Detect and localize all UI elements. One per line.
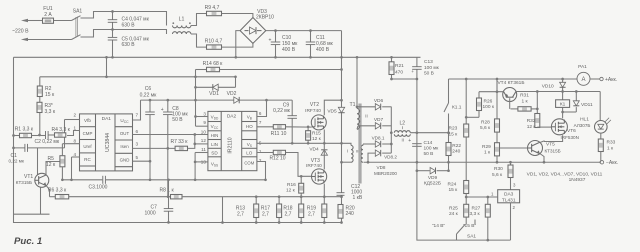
wire DA1 pin2 Vfb [65, 120, 80, 148]
wire DA2 pin5 Vs [257, 142, 343, 145]
fuse FU1 [43, 6, 72, 23]
wire DA1 pin6 OUT to DA2 [133, 134, 208, 136]
svg-text:5,6 к: 5,6 к [480, 125, 491, 131]
svg-text:1 к: 1 к [521, 98, 528, 104]
svg-text:R22: R22 [452, 143, 461, 149]
wire bridge minus to bus [234, 31, 240, 59]
zener VD5 [327, 107, 344, 114]
svg-text:IRF740: IRF740 [306, 163, 322, 169]
capacitor C2 [35, 131, 60, 145]
svg-text:R9 4,7: R9 4,7 [205, 5, 220, 11]
wire DA2 pin2 COM [257, 162, 267, 182]
svg-text:VD2: VD2 [227, 91, 237, 97]
svg-text:КД522Б: КД522Б [424, 181, 441, 187]
svg-text:1: 1 [73, 126, 76, 131]
svg-text:R28: R28 [481, 119, 490, 125]
label VD8 type [374, 165, 397, 176]
resistor R19 [307, 197, 327, 224]
svg-text:IRF530N: IRF530N [561, 135, 579, 140]
diode VD8.2 [367, 150, 398, 164]
wire common bus left and bottom [14, 57, 343, 222]
resistor R12 [257, 150, 312, 176]
svg-text:3: 3 [136, 142, 139, 147]
svg-text:50 В: 50 В [424, 151, 434, 157]
svg-text:2КВР10: 2КВР10 [256, 15, 274, 21]
svg-text:4: 4 [73, 152, 76, 157]
wire lower gnd line [14, 213, 50, 215]
svg-text:12: 12 [201, 138, 207, 143]
svg-text:VD8: VD8 [377, 165, 386, 170]
svg-text:5,6 к: 5,6 к [492, 172, 503, 178]
svg-text:IR2110: IR2110 [228, 137, 234, 153]
svg-text:240: 240 [452, 149, 460, 155]
svg-text:HIN: HIN [211, 133, 219, 138]
transistor VT2 [305, 102, 326, 130]
svg-text:R15: R15 [312, 131, 321, 137]
resistor R23 [449, 79, 469, 181]
svg-text:Рис. 1: Рис. 1 [14, 236, 42, 247]
svg-text:~220 В: ~220 В [12, 28, 29, 34]
svg-text:КТ315Б: КТ315Б [16, 180, 32, 185]
svg-text:VT4 КТ361Б: VT4 КТ361Б [497, 80, 524, 86]
transistor VT6 [537, 119, 579, 140]
svg-text:OUT: OUT [120, 131, 130, 136]
transistor VT1 [16, 148, 49, 214]
wire relay drive line [536, 90, 600, 93]
svg-text:12 к: 12 к [286, 188, 296, 194]
resistor R11 [257, 125, 312, 138]
transformer T1 winding II [356, 56, 368, 129]
wire DA2 pin11 SD [195, 152, 208, 154]
wire VT2 source [323, 130, 325, 144]
svg-text:DA1: DA1 [102, 116, 112, 122]
svg-text:12 к: 12 к [46, 162, 56, 168]
svg-text:3: 3 [203, 111, 206, 116]
capacitor C14 [408, 138, 439, 164]
svg-text:R12 10: R12 10 [269, 155, 285, 161]
wire mains line lower [21, 38, 72, 41]
svg-text:0,22 мк: 0,22 мк [140, 92, 158, 98]
resistor R28 [480, 79, 500, 143]
svg-text:+: + [408, 138, 411, 144]
svg-text:HL1: HL1 [580, 117, 589, 123]
snubber capacitor C12 [337, 184, 363, 201]
resistor R4 [52, 127, 71, 137]
wire VT3 source [323, 184, 326, 198]
resistor R18 [283, 197, 303, 224]
shunt regulator DA3 TL431 [498, 190, 520, 204]
transformer T1 core [359, 104, 361, 184]
resistor R10 [205, 39, 253, 50]
svg-text:2,7: 2,7 [237, 212, 244, 218]
svg-text:L2: L2 [400, 120, 406, 126]
relay contact K1.1 [444, 79, 462, 134]
transistor VT4 [479, 79, 537, 109]
wire gnd drop x222 [221, 197, 224, 224]
resistor R1 [12, 126, 45, 137]
wire +310V bus [266, 30, 342, 32]
note diode types [527, 171, 603, 183]
diode VD9 [424, 168, 441, 187]
svg-text:VT5: VT5 [546, 142, 555, 148]
capacitor C6 [140, 86, 158, 181]
resistor R25 [449, 197, 469, 225]
diode VD2 [141, 91, 293, 103]
diode VD11 [561, 92, 593, 114]
diode VD6 [357, 98, 392, 110]
svg-text:2,7: 2,7 [285, 212, 292, 218]
wire DA1 pin3 Isen [133, 147, 176, 150]
svg-text:Vfb: Vfb [84, 118, 91, 123]
resistor R21 [389, 56, 404, 79]
svg-text:400 В: 400 В [316, 47, 330, 53]
svg-text:R10 4,7: R10 4,7 [205, 39, 223, 45]
svg-text:3,3 к: 3,3 к [45, 109, 56, 115]
wire rectifier cathode join [390, 107, 393, 153]
capacitor C8 [161, 100, 189, 197]
svg-text:DA2: DA2 [227, 114, 237, 120]
resistor R7 [171, 133, 197, 150]
resistor R33 [598, 133, 615, 163]
svg-text:24 к: 24 к [449, 211, 459, 217]
terminal +Akk [590, 77, 617, 83]
resistor R6 [48, 188, 171, 199]
svg-text:2 А: 2 А [44, 12, 52, 18]
svg-text:15 к: 15 к [45, 92, 55, 98]
svg-text:A: A [581, 77, 585, 83]
svg-text:Isen: Isen [120, 144, 129, 149]
svg-text:R30: R30 [494, 166, 503, 172]
svg-text:“15 В”: “15 В” [463, 223, 476, 229]
resistor R30 [492, 162, 516, 189]
wire VT3 gate pulldown [300, 175, 303, 198]
svg-text:3,3 к: 3,3 к [470, 211, 481, 217]
svg-text:R4 3,3 к: R4 3,3 к [52, 127, 71, 133]
resistor R14 [196, 61, 342, 72]
svg-text:+: + [411, 69, 414, 74]
resistor R16 [286, 182, 304, 194]
svg-text:100 мк: 100 мк [424, 146, 440, 152]
svg-text:CMP: CMP [83, 131, 93, 136]
svg-text:II: II [402, 138, 404, 143]
wire Vcc out line [390, 78, 418, 81]
figure caption [14, 236, 42, 247]
capacitor C4 [108, 10, 150, 29]
svg-text:АЛ307Б: АЛ307Б [574, 123, 591, 128]
svg-text:LO: LO [246, 151, 253, 156]
svg-text:R25: R25 [449, 206, 458, 212]
wire DA1 pin1 CMP [67, 131, 80, 136]
wire DA1 pin7 Vcc [133, 100, 141, 120]
svg-text:R32: R32 [527, 118, 536, 124]
svg-text:R26: R26 [484, 99, 493, 105]
resistor R24 [448, 181, 469, 198]
resistor R5 [46, 144, 65, 180]
svg-text:400 В: 400 В [282, 47, 296, 53]
capacitor C5 [108, 28, 150, 59]
resistor R26 [465, 92, 495, 119]
svg-text:R8 1 к: R8 1 к [160, 188, 175, 194]
svg-text:R1 3,3 к: R1 3,3 к [15, 126, 34, 132]
svg-text:6: 6 [136, 129, 139, 134]
wire DA2 pin6 Vb [257, 100, 267, 116]
svg-text:PA1: PA1 [578, 64, 587, 70]
wire DA2 pin9 [196, 125, 208, 127]
svg-text:1 кВ: 1 кВ [353, 195, 363, 201]
svg-text:COM: COM [244, 161, 254, 166]
svg-text:Uref: Uref [83, 144, 92, 149]
svg-text:VT1: VT1 [24, 174, 33, 180]
svg-text:“14 В”: “14 В” [432, 223, 445, 229]
relay coil K1 [556, 92, 570, 119]
svg-text:470: 470 [395, 69, 403, 75]
svg-text:C6: C6 [145, 86, 152, 92]
wire control ground line [61, 178, 265, 181]
svg-text:VD8.1: VD8.1 [372, 136, 385, 141]
svg-text:100 к: 100 к [483, 104, 495, 110]
resistor R29 [482, 143, 500, 164]
switch SA1 voltage select [432, 220, 476, 241]
svg-text:15 к: 15 к [449, 187, 459, 193]
svg-text:UC3844: UC3844 [105, 133, 111, 152]
main HV vertical [340, 31, 343, 224]
svg-text:10: 10 [201, 129, 207, 134]
svg-text:630 В: 630 В [122, 22, 136, 28]
svg-text:VD9: VD9 [428, 175, 438, 181]
wire minus line VD9 [416, 169, 450, 172]
wire output top line [449, 78, 578, 81]
resistor R32 [527, 92, 540, 130]
wire VT1 collector [46, 162, 60, 175]
svg-text:2: 2 [73, 113, 76, 118]
svg-text:DA3: DA3 [504, 192, 514, 198]
svg-text:VD8.2: VD8.2 [384, 154, 397, 159]
svg-text:IRF740: IRF740 [305, 108, 321, 114]
led HL1 [574, 92, 611, 134]
wire VT6 source [544, 135, 563, 141]
capacitor C3 [89, 176, 108, 191]
svg-text:1 к: 1 к [607, 146, 614, 152]
resistor R27 [470, 197, 491, 241]
transistor VT3 [306, 158, 327, 184]
capacitor C13 [411, 57, 439, 79]
svg-text:VD5: VD5 [327, 109, 337, 115]
svg-text:C3.1000: C3.1000 [89, 184, 108, 190]
svg-text:VD1: VD1 [209, 91, 219, 97]
svg-text:SD: SD [211, 151, 218, 156]
wire threshold divider top [465, 191, 498, 198]
svg-text:R6 3,3 к: R6 3,3 к [48, 188, 67, 194]
diode VD8.1 [363, 136, 393, 148]
wire from SA1 to filter upper [81, 12, 167, 26]
transformer T1 winding III [356, 144, 363, 162]
svg-text:Т1: Т1 [349, 102, 355, 108]
svg-text:II: II [365, 114, 367, 119]
svg-text:VD10: VD10 [542, 83, 554, 89]
resistor R3 [37, 102, 56, 136]
svg-text:12 к: 12 к [527, 124, 537, 130]
svg-text:SA1: SA1 [467, 234, 476, 240]
svg-text:L1: L1 [179, 17, 185, 23]
wire VT3 drain [323, 143, 325, 169]
svg-text:R29: R29 [482, 144, 491, 150]
svg-text:VD6: VD6 [374, 98, 384, 104]
svg-text:50 В: 50 В [424, 71, 434, 77]
resistor R2 [37, 77, 55, 136]
svg-text:15 к: 15 к [449, 131, 459, 137]
wire DA1 pin8 Uref [63, 143, 80, 145]
svg-text:R11 10: R11 10 [271, 131, 287, 137]
driver DA2 IR2110 [201, 111, 262, 171]
svg-text:К1.1: К1.1 [452, 105, 462, 111]
svg-text:1N4937: 1N4937 [569, 177, 586, 183]
svg-text:VD1, VD2, VD4...VD7, VD10, VD1: VD1, VD2, VD4...VD7, VD10, VD11 [527, 171, 603, 177]
ammeter PA1 [577, 64, 590, 85]
svg-text:C2 0,22 мк: C2 0,22 мк [35, 139, 60, 145]
svg-text:VT6: VT6 [567, 128, 576, 134]
bridge rectifier VD3 [240, 9, 274, 44]
svg-text:1: 1 [259, 149, 262, 154]
inductor L2 [394, 120, 448, 142]
svg-text:2: 2 [259, 158, 262, 163]
wire common bus top [14, 56, 421, 58]
svg-text:К1: К1 [560, 102, 566, 108]
svg-text:VD7: VD7 [374, 117, 384, 123]
svg-text:R31: R31 [520, 93, 529, 99]
svg-text:100 мк: 100 мк [424, 65, 440, 71]
svg-text:R21: R21 [395, 63, 404, 69]
wire DA2 pin3 [196, 116, 208, 118]
wire DA3 pin2 [511, 203, 516, 240]
svg-text:VT2: VT2 [310, 102, 319, 108]
capacitor C7 [145, 178, 174, 223]
svg-text:8: 8 [73, 139, 76, 144]
capacitor C9 [273, 100, 297, 143]
svg-text:7: 7 [136, 113, 139, 118]
svg-text:1 к: 1 к [484, 150, 491, 156]
svg-text:R23: R23 [449, 126, 458, 132]
wire DA2 pin13 [194, 153, 208, 182]
svg-text:VD4: VD4 [309, 147, 319, 153]
svg-text:12 к: 12 к [312, 136, 322, 142]
svg-text:R33: R33 [607, 139, 616, 145]
svg-text:III: III [356, 148, 359, 153]
capacitor C1 [9, 144, 28, 164]
label ~220V [12, 28, 29, 34]
resistor R31 [511, 93, 539, 112]
svg-text:11: 11 [201, 147, 206, 152]
svg-text:MBR20200: MBR20200 [374, 171, 397, 176]
svg-text:9: 9 [203, 120, 206, 125]
resistor R8 [160, 188, 223, 199]
svg-text:50 В: 50 В [172, 117, 183, 123]
svg-text:R7 33 к: R7 33 к [171, 139, 189, 145]
diode VD10 [542, 79, 566, 92]
svg-text:+: + [161, 107, 164, 113]
wire startup feed [40, 56, 237, 78]
transistor VT5 [500, 141, 561, 164]
inductor L1 [172, 14, 206, 48]
svg-text:R24: R24 [448, 181, 457, 187]
wire DA1 pin5 GND [133, 160, 151, 162]
svg-text:R16: R16 [287, 182, 296, 188]
wire Vcc riser [194, 70, 197, 127]
svg-text:LIN: LIN [211, 142, 218, 147]
svg-text:I: I [347, 148, 348, 153]
zener VD4 [309, 147, 327, 156]
svg-text:R27: R27 [472, 206, 481, 212]
op-amp controller DA1 UC3844 [73, 113, 138, 171]
svg-text:0,22 мк: 0,22 мк [9, 159, 25, 164]
svg-text:5: 5 [136, 155, 139, 160]
svg-text:240: 240 [346, 211, 355, 217]
svg-text:+Акк.: +Акк. [605, 77, 617, 83]
svg-text:HO: HO [246, 124, 253, 129]
svg-text:C14: C14 [424, 140, 433, 146]
svg-text:630 В: 630 В [122, 42, 136, 48]
wire from SA1 to filter lower [81, 30, 167, 38]
svg-text:2,7: 2,7 [262, 212, 269, 218]
resistor R13 [236, 197, 259, 224]
wire sense line [223, 195, 343, 198]
wire DA2 pin12 LIN [195, 143, 208, 145]
wire feedback node [12, 147, 64, 150]
svg-text:VT3: VT3 [311, 158, 320, 164]
svg-text:RC: RC [84, 157, 91, 162]
transformer T1 label [349, 102, 355, 108]
svg-text:TL431: TL431 [502, 197, 516, 203]
svg-text:VD11: VD11 [581, 102, 593, 108]
svg-text:КТ315Б: КТ315Б [545, 148, 561, 153]
svg-text:C13: C13 [424, 59, 433, 65]
capacitor C11 [306, 29, 334, 58]
transformer T1 winding I [340, 143, 353, 163]
diode VD7 [358, 117, 392, 129]
svg-text:0,22 мк: 0,22 мк [273, 108, 291, 114]
wire mains line upper [21, 19, 43, 23]
svg-text:1000: 1000 [145, 211, 156, 217]
svg-text:GND: GND [120, 158, 130, 163]
svg-text:6: 6 [259, 111, 262, 116]
switch SA1 [72, 9, 83, 40]
svg-text:+: + [269, 38, 272, 44]
snubber resistor R20 [338, 205, 355, 219]
resistor R9 [205, 5, 253, 18]
svg-text:2,7: 2,7 [308, 212, 315, 218]
wire minus column [417, 79, 511, 240]
resistor R17 [261, 197, 282, 224]
svg-text:−Акк.: −Акк. [606, 160, 618, 166]
diode VD1 [196, 77, 236, 97]
svg-text:SA1: SA1 [73, 9, 83, 15]
wire VT1 emitter [46, 186, 49, 197]
wire DA1 pin4 RC [70, 157, 79, 181]
wire minus rail [364, 160, 619, 166]
svg-text:R14 68 к: R14 68 к [203, 61, 224, 67]
wire VT2 drain [324, 99, 343, 115]
resistor R22 [446, 133, 461, 171]
resistor R15 [306, 127, 322, 144]
svg-text:7: 7 [259, 120, 262, 125]
capacitor C10 [269, 29, 299, 58]
